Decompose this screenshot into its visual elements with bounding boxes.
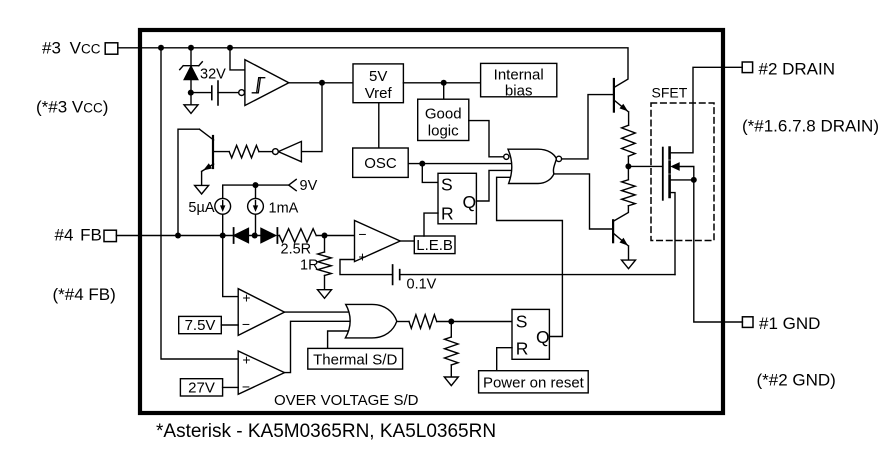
diode D2 <box>261 228 276 242</box>
wire 9V supply line <box>223 185 289 198</box>
block Thermal S/D <box>308 348 403 369</box>
latch U9 SR (protection) <box>512 309 549 359</box>
svg-text:7.5V: 7.5V <box>185 317 216 334</box>
svg-text:S: S <box>516 311 528 331</box>
block Good logic <box>418 99 469 140</box>
pin pad #1 GND <box>742 317 753 328</box>
wire comparator output to LEB <box>400 240 414 242</box>
wire driver to Q3 base <box>554 174 613 229</box>
current source I2 1mA <box>248 198 264 214</box>
wire OSC output <box>408 163 515 165</box>
node bias junction <box>441 80 447 86</box>
wire latch2 Q to NOR <box>497 177 563 336</box>
wire NOR output to Q2 base <box>562 95 614 159</box>
node gate drive junction <box>625 163 631 169</box>
node VCC rail junction 2 <box>188 45 194 51</box>
svg-text:27V: 27V <box>188 380 215 397</box>
wire VCC to schmitt top <box>230 48 246 70</box>
node FB/emitter junction <box>175 233 181 239</box>
resistor (upper driver) <box>622 125 636 156</box>
wire I1 to FB rail <box>222 214 224 235</box>
wire source stub <box>670 179 694 181</box>
resistor (lower driver) <box>622 180 636 206</box>
pin pad #4 FB <box>104 230 116 241</box>
op-amp U5 current comparator <box>355 221 401 262</box>
svg-text:SFET: SFET <box>652 85 688 101</box>
svg-text:Power on reset: Power on reset <box>483 375 585 392</box>
gate U3 NOR (driver logic) <box>508 149 556 183</box>
wire Thermal S/D to OR <box>328 331 353 349</box>
node D1/D2/1mA junction <box>252 233 258 239</box>
wire drain to pad <box>670 67 743 153</box>
inverter U2 <box>278 141 301 161</box>
svg-text:1mA: 1mA <box>269 201 299 217</box>
svg-text:bias: bias <box>505 83 533 100</box>
svg-text:S: S <box>441 175 453 195</box>
svg-text:0.1V: 0.1V <box>407 277 437 293</box>
wire 27V comp to OR <box>285 321 355 372</box>
svg-text:Vref: Vref <box>365 85 393 102</box>
wire inverter to resistor <box>259 151 273 153</box>
svg-text:(*#3 VCC): (*#3 VCC) <box>36 98 108 117</box>
svg-text:32V: 32V <box>200 67 226 83</box>
node shutdown junction <box>448 319 454 325</box>
wire sense to 0.1V line <box>670 193 676 275</box>
svg-text:−: − <box>242 316 250 332</box>
wire latch R to LEB <box>424 213 438 236</box>
svg-text:logic: logic <box>428 123 459 140</box>
svg-text:Q: Q <box>463 192 477 212</box>
wire source to GND pad <box>694 180 743 322</box>
wire 7.5V ref to comparator <box>221 324 238 326</box>
op-amp U1 schmitt trigger (UVLO) <box>245 60 289 106</box>
wire to Good logic <box>443 83 445 99</box>
node VCC rail junction 3 <box>227 45 233 51</box>
IC boundary frame <box>140 30 723 413</box>
pin pad #2 DRAIN <box>742 62 752 73</box>
resistor (latch2 S drive) <box>409 315 437 329</box>
svg-text:R: R <box>441 204 454 224</box>
resistor 1R <box>324 236 326 253</box>
pin pad #3 VCC <box>105 43 118 54</box>
wire FB to 7.5V comparator <box>223 236 239 297</box>
node divider junction <box>322 233 328 239</box>
resistor (pulldown) <box>450 322 452 338</box>
node 9V/1mA junction <box>253 182 259 188</box>
svg-text:+: + <box>242 352 250 368</box>
svg-text:2.5R: 2.5R <box>281 242 312 258</box>
svg-text:−: − <box>358 226 366 242</box>
svg-text:Good: Good <box>425 106 462 123</box>
node FB/5uA junction <box>220 233 226 239</box>
svg-text:*Asterisk - KA5M0365RN, KA5L03: *Asterisk - KA5M0365RN, KA5L0365RN <box>156 421 496 442</box>
wire Vref to OSC <box>378 103 380 148</box>
transistor Q3 <box>612 220 614 242</box>
wire VCC to 27V comparator <box>161 48 239 359</box>
svg-text:−: − <box>242 379 250 395</box>
ground (pulldown) <box>444 377 458 386</box>
svg-text:#1 GND: #1 GND <box>759 314 820 333</box>
svg-text:OVER VOLTAGE S/D: OVER VOLTAGE S/D <box>274 392 419 409</box>
svg-text:(*#4 FB): (*#4 FB) <box>53 285 116 304</box>
wire OSC to latch S <box>422 164 438 183</box>
resistor 2.5R <box>279 229 316 243</box>
svg-text:L.E.B: L.E.B <box>416 237 453 254</box>
current source I1 5uA <box>215 198 231 214</box>
zener diode 32V <box>180 62 203 70</box>
svg-text:OSC: OSC <box>364 155 397 172</box>
ground (1R) <box>318 290 332 299</box>
transistor Q1 <box>212 136 214 168</box>
block Power on reset <box>479 371 589 393</box>
svg-text:+: + <box>358 249 366 265</box>
node OSC junction <box>419 161 425 167</box>
ground (Q1) <box>195 185 209 194</box>
svg-text:5µA: 5µA <box>188 200 214 216</box>
transistor Q2 <box>613 79 615 112</box>
resistor (base drive of Q1) <box>229 145 259 157</box>
supply notch 9V <box>289 179 297 190</box>
wire 0.1V sense line <box>400 274 675 276</box>
svg-text:Internal: Internal <box>494 67 544 84</box>
node zener/cap junction <box>188 90 194 96</box>
capacitor (Vcc sense) <box>212 81 218 105</box>
wire gate drive <box>628 165 662 167</box>
block OSC <box>353 148 409 177</box>
block Internal bias <box>481 63 557 96</box>
op-amp U8 comparator 27V <box>238 351 284 394</box>
wire to latch2 S <box>437 321 512 323</box>
op-amp U7 comparator 7.5V <box>238 289 284 336</box>
block 27V reference <box>180 379 222 396</box>
svg-text:5V: 5V <box>369 68 387 85</box>
block 7.5V reference <box>179 316 222 333</box>
wire Vref to Internal bias <box>403 82 480 84</box>
block 5V Vref <box>353 64 403 103</box>
block L.E.B <box>414 236 455 254</box>
wire 7.5V comp to OR <box>285 311 355 313</box>
transistor SFET (power MOSFET) <box>662 148 664 200</box>
svg-text:9V: 9V <box>300 178 318 194</box>
latch U6 SR (PWM) <box>438 173 476 224</box>
wire resistor to Q1 base <box>214 151 229 153</box>
wire comparator + input loop <box>340 260 393 275</box>
svg-text:(*#2 GND): (*#2 GND) <box>757 371 836 390</box>
wire capacitor link <box>191 92 239 94</box>
svg-text:R: R <box>516 339 529 359</box>
ground (zener) <box>184 105 198 114</box>
wire zener branch <box>190 48 192 105</box>
battery 0.1V <box>392 265 394 284</box>
gate U4 OR (shutdown) <box>345 304 396 338</box>
svg-text:1R: 1R <box>300 258 319 274</box>
wire VCC rail <box>118 48 628 88</box>
wire POR to latch R <box>497 348 512 371</box>
wire FB rail <box>116 235 356 237</box>
SFET dashed box <box>651 103 714 241</box>
wire body tie <box>678 167 694 180</box>
node VCC rail junction 1 <box>158 45 164 51</box>
node schmitt output junction <box>319 80 325 86</box>
wire latch Q to NOR <box>476 170 515 201</box>
svg-text:Thermal S/D: Thermal S/D <box>313 352 397 369</box>
wire schmitt output to 5V Vref <box>289 82 353 84</box>
wire to inverter input <box>301 83 322 152</box>
wire 27V ref to comparator <box>223 386 239 388</box>
node source/body junction <box>691 177 697 183</box>
ground (Q3) <box>622 260 636 269</box>
diode D1 <box>233 228 235 243</box>
wire I2 to diode junction <box>255 214 257 235</box>
svg-text:Q: Q <box>536 327 550 347</box>
svg-text:#3 VCC: #3 VCC <box>42 39 101 58</box>
wire Good logic to NOR <box>469 121 505 157</box>
svg-text:(*#1.6.7.8 DRAIN): (*#1.6.7.8 DRAIN) <box>742 117 879 136</box>
svg-text:#2 DRAIN: #2 DRAIN <box>759 60 836 79</box>
wire OR output <box>397 321 409 323</box>
svg-text:+: + <box>242 290 250 306</box>
